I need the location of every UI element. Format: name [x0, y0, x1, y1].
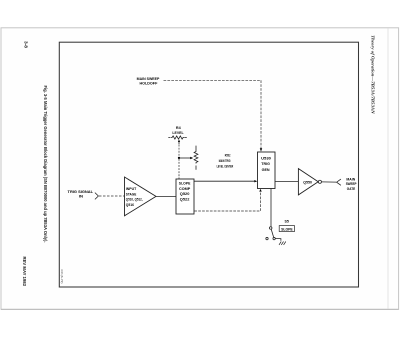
- svg-text:S5: S5: [285, 220, 289, 224]
- svg-text:LEVEL CENTER: LEVEL CENTER: [217, 163, 234, 168]
- node MAIN SWEEP GATE label: [346, 176, 357, 191]
- amplifier Q550: [298, 169, 318, 195]
- resistor R4 (horizontal): [168, 136, 187, 139]
- node output chevron: [337, 179, 341, 185]
- svg-text:Q510, Q512,: Q510, Q512,: [126, 198, 143, 202]
- node input chevron: [95, 193, 99, 200]
- svg-text:COMP: COMP: [179, 187, 191, 191]
- switch S5 left contact: [266, 237, 268, 239]
- svg-text:C9 (A-72): C9 (A-72): [60, 270, 64, 284]
- svg-text:Theory of Operation—7B53A/7B53: Theory of Operation—7B53A/7B53AN: [371, 35, 376, 114]
- svg-text:Fig. 3-5 Main Trigger Generato: Fig. 3-5 Main Trigger Generator Block Di…: [43, 86, 48, 243]
- wire: trig signal to input stage (dashed): [99, 195, 124, 197]
- svg-text:REV MAY 1983: REV MAY 1983: [22, 257, 27, 287]
- svg-text:Q520: Q520: [180, 192, 190, 196]
- wire: input stage to slope comp: [156, 195, 176, 197]
- wiper arrow of R4: [178, 142, 180, 145]
- resistor R502 (vertical): [194, 146, 198, 170]
- switch S5 right contact: [273, 237, 275, 239]
- svg-text:Q516: Q516: [126, 203, 134, 207]
- label R502 MAIN TRIG LEVEL CENTER: [217, 152, 234, 168]
- svg-text:STAGE: STAGE: [126, 192, 137, 196]
- svg-text:HOLDOFF: HOLDOFF: [139, 80, 157, 85]
- wire: bubble to output chevron: [322, 181, 337, 183]
- svg-text:GEN: GEN: [262, 168, 270, 172]
- block U530 TRIG GEN: [258, 152, 276, 189]
- svg-text:SLOPE: SLOPE: [281, 228, 293, 232]
- node MAIN SWEEP HOLDOFF label: [137, 76, 160, 86]
- svg-text:LEVEL: LEVEL: [172, 130, 184, 135]
- wire: feedback dashed from slope comp to U530 bottom: [194, 192, 260, 211]
- wire: U530 to Q550: [275, 181, 298, 183]
- svg-text:R502: R502: [225, 152, 231, 157]
- svg-text:R4: R4: [176, 125, 182, 130]
- node junction dot: [178, 157, 180, 159]
- node TRIG SIGNAL IN label: [68, 189, 94, 199]
- wire: R4 wiper down (dashed): [178, 145, 180, 157]
- wire: U530 bottom to switch: [270, 189, 272, 227]
- switch S5 arm: [271, 229, 273, 237]
- svg-text:GATE: GATE: [347, 186, 356, 191]
- amplifier input stage Q510,Q512,Q516: [125, 177, 157, 216]
- svg-text:U530: U530: [261, 157, 271, 161]
- svg-text:3-8: 3-8: [23, 41, 28, 49]
- block slope comp Q520 Q522: [176, 179, 194, 214]
- svg-text:SLOPE: SLOPE: [179, 182, 191, 186]
- svg-text:Q522: Q522: [180, 197, 190, 201]
- wire: holdoff dashed line to U530 top: [164, 80, 262, 148]
- svg-text:INPUT: INPUT: [126, 187, 137, 191]
- switch S5 common contact: [269, 227, 272, 230]
- svg-text:Q550: Q550: [303, 180, 312, 184]
- inverter bubble: [318, 180, 321, 183]
- svg-text:TRIG: TRIG: [261, 162, 270, 166]
- wire: junction down to slope comp: [178, 159, 180, 179]
- diagram frame: [59, 42, 358, 287]
- wire: junction to R502 wiper: [180, 157, 191, 159]
- ground (chassis): [279, 242, 286, 245]
- svg-text:MAIN TRIG: MAIN TRIG: [219, 158, 231, 163]
- potentiometer R4 LEVEL label: [172, 125, 184, 135]
- wire: right contact to ground: [275, 239, 281, 241]
- svg-text:IN: IN: [79, 194, 83, 199]
- wire: slope comp to U530: [194, 180, 254, 182]
